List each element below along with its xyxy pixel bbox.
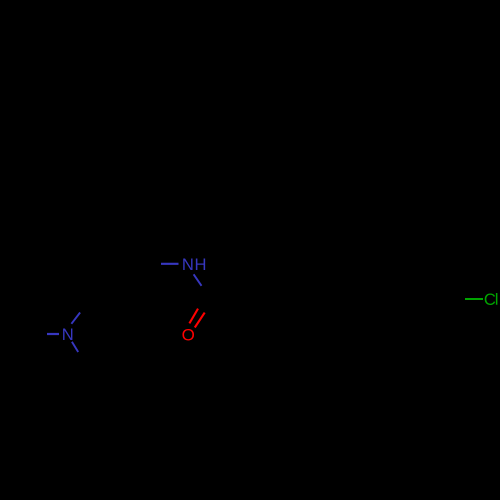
svg-text:O: O xyxy=(182,326,195,345)
svg-text:NH: NH xyxy=(182,255,207,274)
svg-text:C: C xyxy=(484,290,496,309)
svg-text:N: N xyxy=(62,325,74,344)
